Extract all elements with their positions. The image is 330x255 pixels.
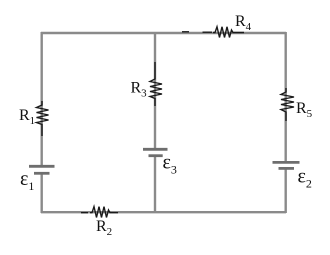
resistor R2 [81,207,118,218]
wire left upper [41,32,43,166]
wire middle lower [154,156,156,213]
wire left lower [41,174,43,213]
svg-text:R3: R3 [131,80,148,100]
battery E2 [273,162,300,168]
wire bottom [41,211,286,213]
wire middle upper [154,33,156,149]
resistor R4 [182,27,244,38]
resistor R1 [37,101,49,136]
resistor R5 [281,88,294,121]
svg-text:ε1: ε1 [20,168,34,193]
svg-text:R2: R2 [96,218,112,238]
svg-text:R1: R1 [19,107,35,127]
svg-text:R5: R5 [296,100,313,120]
svg-text:ε2: ε2 [298,166,312,191]
svg-text:R4: R4 [235,13,252,33]
wire top [41,32,286,34]
svg-text:ε3: ε3 [163,152,177,177]
battery E1 [29,166,55,173]
wire right lower [285,169,287,213]
battery E3 [143,149,168,155]
resistor R3 [150,62,162,106]
wire right upper [285,32,287,162]
